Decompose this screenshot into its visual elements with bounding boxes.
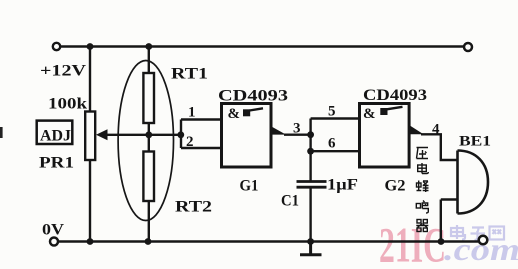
svg-text:RT1: RT1 (171, 66, 208, 83)
svg-text:PR1: PR1 (39, 155, 74, 172)
svg-text:4: 4 (432, 121, 440, 137)
svg-text:BE1: BE1 (459, 134, 491, 150)
svg-text:RT2: RT2 (175, 199, 212, 216)
svg-text:2: 2 (186, 134, 194, 150)
svg-text:&: & (363, 106, 376, 122)
svg-text:G2: G2 (385, 178, 406, 195)
svg-text:ADJ: ADJ (40, 128, 71, 145)
svg-text:1µF: 1µF (327, 177, 358, 194)
svg-text:C1: C1 (281, 193, 299, 210)
svg-text:100k: 100k (48, 96, 87, 113)
svg-text:G1: G1 (240, 178, 259, 195)
svg-text:CD4093: CD4093 (363, 87, 427, 104)
svg-text:6: 6 (328, 136, 336, 152)
svg-text:3: 3 (293, 120, 301, 136)
svg-text:5: 5 (328, 104, 336, 120)
svg-text:CD4093: CD4093 (218, 88, 288, 105)
svg-text:+12V: +12V (40, 63, 87, 80)
svg-text:21IC: 21IC (379, 217, 446, 269)
svg-text:1: 1 (188, 105, 196, 121)
svg-text:0V: 0V (42, 222, 64, 239)
svg-text:&: & (228, 106, 241, 122)
